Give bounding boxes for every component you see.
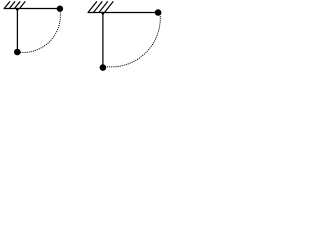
right pendulum figure bbox=[88, 1, 161, 67]
right swing arc dotted bbox=[105, 14, 160, 66]
left pivot junction bbox=[16, 8, 19, 11]
right pivot junction bbox=[102, 12, 105, 15]
hatch 1 (left support) bbox=[4, 1, 10, 8]
hatch 3 (left support) bbox=[14, 1, 20, 8]
left bob bottom position bbox=[14, 49, 21, 56]
right bob horizontal position bbox=[155, 9, 162, 16]
ceiling line (right support) bbox=[88, 12, 159, 14]
ceiling line (left support) bbox=[4, 8, 60, 10]
hatch 2 (right support) bbox=[93, 1, 102, 12]
left pendulum rod vertical bbox=[16, 9, 18, 53]
left swing arc dotted bbox=[17, 9, 60, 53]
hatch 3 (right support) bbox=[99, 1, 108, 12]
right pendulum rod vertical bbox=[102, 13, 104, 68]
hatch 4 (left support) bbox=[20, 1, 26, 8]
left bob horizontal position bbox=[57, 6, 63, 12]
hatch 1 (right support) bbox=[88, 1, 97, 12]
hatch 4 (right support) bbox=[104, 1, 113, 12]
hatch 2 (left support) bbox=[9, 1, 15, 8]
left pendulum figure bbox=[4, 1, 61, 52]
right bob bottom position bbox=[100, 64, 107, 71]
